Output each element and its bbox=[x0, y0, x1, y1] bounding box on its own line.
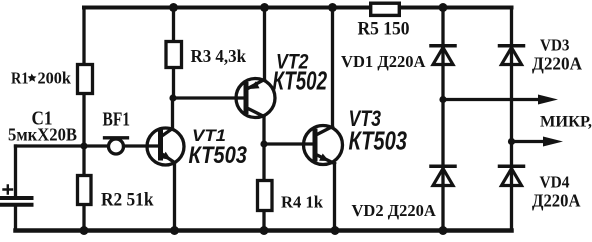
svg-text:VD2 Д220А: VD2 Д220А bbox=[352, 201, 437, 220]
wire top rail to VD1 bbox=[441, 8, 444, 100]
resistor R2 bbox=[78, 176, 92, 205]
wire input node to R2 bbox=[82, 146, 85, 175]
svg-text:5мкХ20В: 5мкХ20В bbox=[8, 124, 77, 144]
resistor R1 bbox=[78, 65, 93, 94]
node B junction VT2 R4 VT3 bbox=[260, 140, 267, 147]
node top rail R3 bbox=[169, 3, 178, 12]
svg-text:VD4: VD4 bbox=[540, 173, 570, 192]
diode VD3 bbox=[500, 46, 524, 65]
transistor VT1 bbox=[147, 128, 184, 165]
svg-text:VD3: VD3 bbox=[540, 36, 570, 55]
wire VT1 collector to node A bbox=[171, 98, 174, 129]
wire VT2 emitter to top rail bbox=[263, 8, 266, 80]
svg-text:R3 4,3k: R3 4,3k bbox=[191, 46, 247, 66]
resistor R3 bbox=[166, 42, 182, 68]
node top rail VT2 emitter bbox=[260, 3, 269, 12]
svg-text:КТ502: КТ502 bbox=[273, 66, 328, 96]
node top rail VT3 collector bbox=[328, 3, 337, 12]
node A junction R3 VT1 VT2 bbox=[169, 94, 176, 101]
wire output upper bbox=[443, 98, 540, 101]
wire node A to VT2 base bbox=[173, 96, 244, 99]
capacitor C1 bbox=[2, 186, 32, 205]
svg-text:BF1: BF1 bbox=[103, 109, 131, 131]
transistor VT3 bbox=[304, 126, 343, 165]
microphone BF1 bbox=[105, 138, 128, 154]
wire VT3 collector to top rail bbox=[331, 8, 334, 127]
wire top rail corner to VD3 bbox=[510, 8, 513, 142]
diode VD4 bbox=[500, 166, 524, 185]
wire node B to VT3 base bbox=[264, 142, 313, 145]
svg-text:КТ503: КТ503 bbox=[349, 126, 408, 156]
wire output lower bbox=[512, 140, 546, 143]
resistor R5 bbox=[371, 3, 400, 15]
wire C1 top lead bbox=[14, 146, 17, 196]
svg-text:200k: 200k bbox=[38, 69, 72, 88]
label R1 value bbox=[11, 69, 72, 88]
wire VT2 collector to node B bbox=[262, 117, 265, 145]
svg-text:R2 51k: R2 51k bbox=[101, 190, 154, 211]
wire R4 to ground rail bbox=[262, 212, 265, 230]
wire top rail to R1 bbox=[82, 8, 85, 65]
wire R2 to ground rail bbox=[82, 206, 85, 230]
svg-text:VD1 Д220А: VD1 Д220А bbox=[341, 52, 426, 71]
node top rail VD1 bbox=[439, 3, 448, 12]
wire output node to VD2 bbox=[441, 100, 444, 231]
wire input line C1 to BF1 bbox=[16, 144, 109, 147]
arrow output upper bbox=[538, 95, 558, 105]
svg-text:R5 150: R5 150 bbox=[358, 19, 410, 40]
wire R1 to input node bbox=[82, 95, 85, 146]
wire VD3 to VD4 bbox=[510, 142, 513, 231]
node ground R2 bbox=[80, 226, 89, 235]
wire node B to R4 bbox=[262, 144, 265, 180]
wire ground rail bbox=[16, 228, 512, 233]
wire VT1 emitter to ground rail bbox=[173, 163, 176, 231]
diode VD2 bbox=[431, 166, 455, 185]
svg-text:Д220А: Д220А bbox=[532, 53, 582, 73]
node ground VD2 bbox=[439, 226, 448, 235]
svg-text:R1: R1 bbox=[11, 69, 29, 88]
svg-text:МИКР,: МИКР, bbox=[540, 113, 592, 130]
wire top rail right of R5 bbox=[401, 6, 512, 10]
svg-text:КТ503: КТ503 bbox=[189, 142, 248, 169]
wire top rail to R3 bbox=[172, 8, 175, 42]
svg-text:R4 1k: R4 1k bbox=[281, 193, 324, 212]
wire top rail left of R5 bbox=[84, 6, 369, 10]
node ground VT1 bbox=[170, 226, 179, 235]
arrow output lower bbox=[543, 137, 563, 147]
node ground VT3 bbox=[331, 226, 340, 235]
svg-text:Д220А: Д220А bbox=[532, 190, 581, 210]
resistor R4 bbox=[258, 181, 273, 211]
wire C1 to ground rail bbox=[14, 207, 17, 230]
wire R3 to node A bbox=[172, 68, 175, 98]
wire VT3 emitter to ground rail bbox=[333, 164, 336, 231]
node output lower VD3 branch bbox=[508, 138, 515, 145]
wire BF1 to VT1 base bbox=[124, 144, 159, 147]
node DC output upper bbox=[439, 96, 446, 103]
node input junction bbox=[80, 142, 87, 149]
diode VD1 bbox=[431, 46, 455, 65]
transistor VT2 bbox=[236, 79, 275, 118]
node ground R4 bbox=[260, 226, 269, 235]
